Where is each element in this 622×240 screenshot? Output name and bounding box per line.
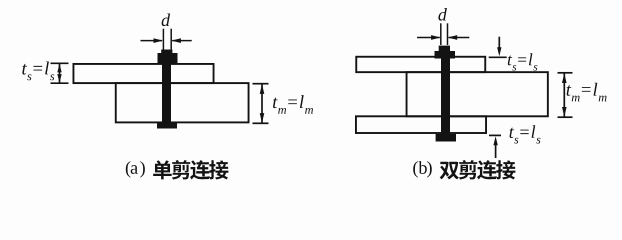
label tm=lm right (a) (273, 95, 313, 114)
dimension ts top-right (b): tick + down arrow (489, 37, 507, 58)
dimension d (b) (417, 23, 469, 45)
bolt shank (a) (162, 50, 171, 129)
label ts=ls bottom (b) (510, 125, 541, 143)
label ts=ls left (a) (22, 61, 54, 80)
bolt head (b), narrow top tier (439, 46, 450, 51)
label d (a) (162, 14, 170, 27)
caption (b) CJK 双剪连接 (440, 160, 516, 179)
bolt head (a), wide tier (158, 53, 178, 64)
bolt nut (b) (436, 134, 456, 142)
caption (a) CJK 单剪连接 (153, 160, 228, 179)
bolt head (a), narrow top tier (161, 50, 172, 55)
label tm=lm right (b) (567, 83, 607, 102)
plate top thin (b) (356, 57, 485, 72)
dimension ts bottom-right (b): tick + up arrow (489, 135, 501, 158)
label ts=ls top (b) (508, 53, 538, 70)
plate bottom thin (b) (356, 116, 486, 133)
caption (a) prefix (126, 161, 145, 178)
bolt shank (b) (441, 46, 450, 141)
dimension ts left (a): ticks and bowtie arrows (51, 63, 69, 83)
bolt nut (a) (157, 122, 177, 128)
dimension tm right (b) (558, 73, 573, 117)
bolt head (b), wide tier (435, 51, 456, 59)
dimension tm right (a) (253, 84, 269, 124)
dimension d (a): extension lines, arrows (141, 29, 192, 50)
plate lower thick (a) (116, 83, 249, 122)
plate upper thin (a) (73, 64, 213, 83)
label d (b) (438, 8, 446, 21)
plate middle thick (b) (407, 72, 548, 116)
caption (b) prefix (413, 161, 432, 178)
